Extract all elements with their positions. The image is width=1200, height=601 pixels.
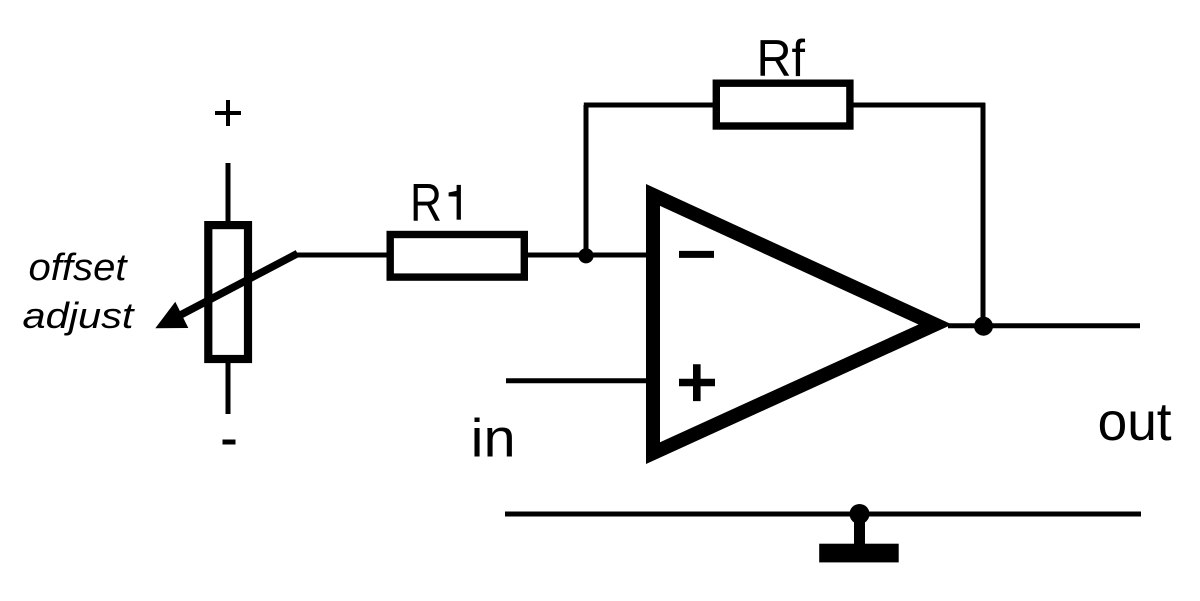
label R1 (410, 174, 461, 233)
wire R1 to op-amp inverting input (528, 253, 648, 258)
resistor R1 (390, 235, 524, 278)
ground stub wire (854, 514, 865, 545)
wiper arrow diagonal (170, 254, 298, 321)
wire wiper to R1 (294, 253, 390, 258)
wire feedback vertical to output (981, 103, 986, 326)
wiper arrowhead (155, 302, 188, 329)
ground bar (819, 544, 899, 563)
wire output (948, 323, 1140, 328)
potentiometer R (offset adjust) (208, 225, 248, 359)
node ground dot (850, 504, 870, 524)
plus supply label (+) (215, 100, 241, 126)
wire pot bottom (226, 359, 231, 414)
wire junction up to Rf (584, 105, 589, 256)
wire in to non-inverting input (506, 378, 648, 383)
wire Rf left (584, 103, 716, 108)
svg-text:Rf: Rf (757, 29, 806, 87)
op-amp inverting input minus symbol (679, 251, 714, 258)
wire pot top (226, 163, 231, 225)
svg-text:out: out (1098, 392, 1172, 452)
minus supply label (-) (223, 440, 236, 445)
wire bottom rail (505, 512, 1141, 517)
svg-text:in: in (471, 409, 516, 469)
resistor Rf (716, 83, 850, 126)
node output dot (974, 317, 993, 336)
node junction dot (inverting input) (578, 248, 593, 263)
svg-text:R: R (410, 174, 442, 233)
wire Rf right (850, 103, 985, 108)
op-amp non-inverting input plus symbol (679, 364, 715, 401)
svg-text:offset: offset (29, 247, 129, 289)
svg-text:adjust: adjust (23, 295, 136, 336)
op-amp U1 body (646, 184, 952, 464)
